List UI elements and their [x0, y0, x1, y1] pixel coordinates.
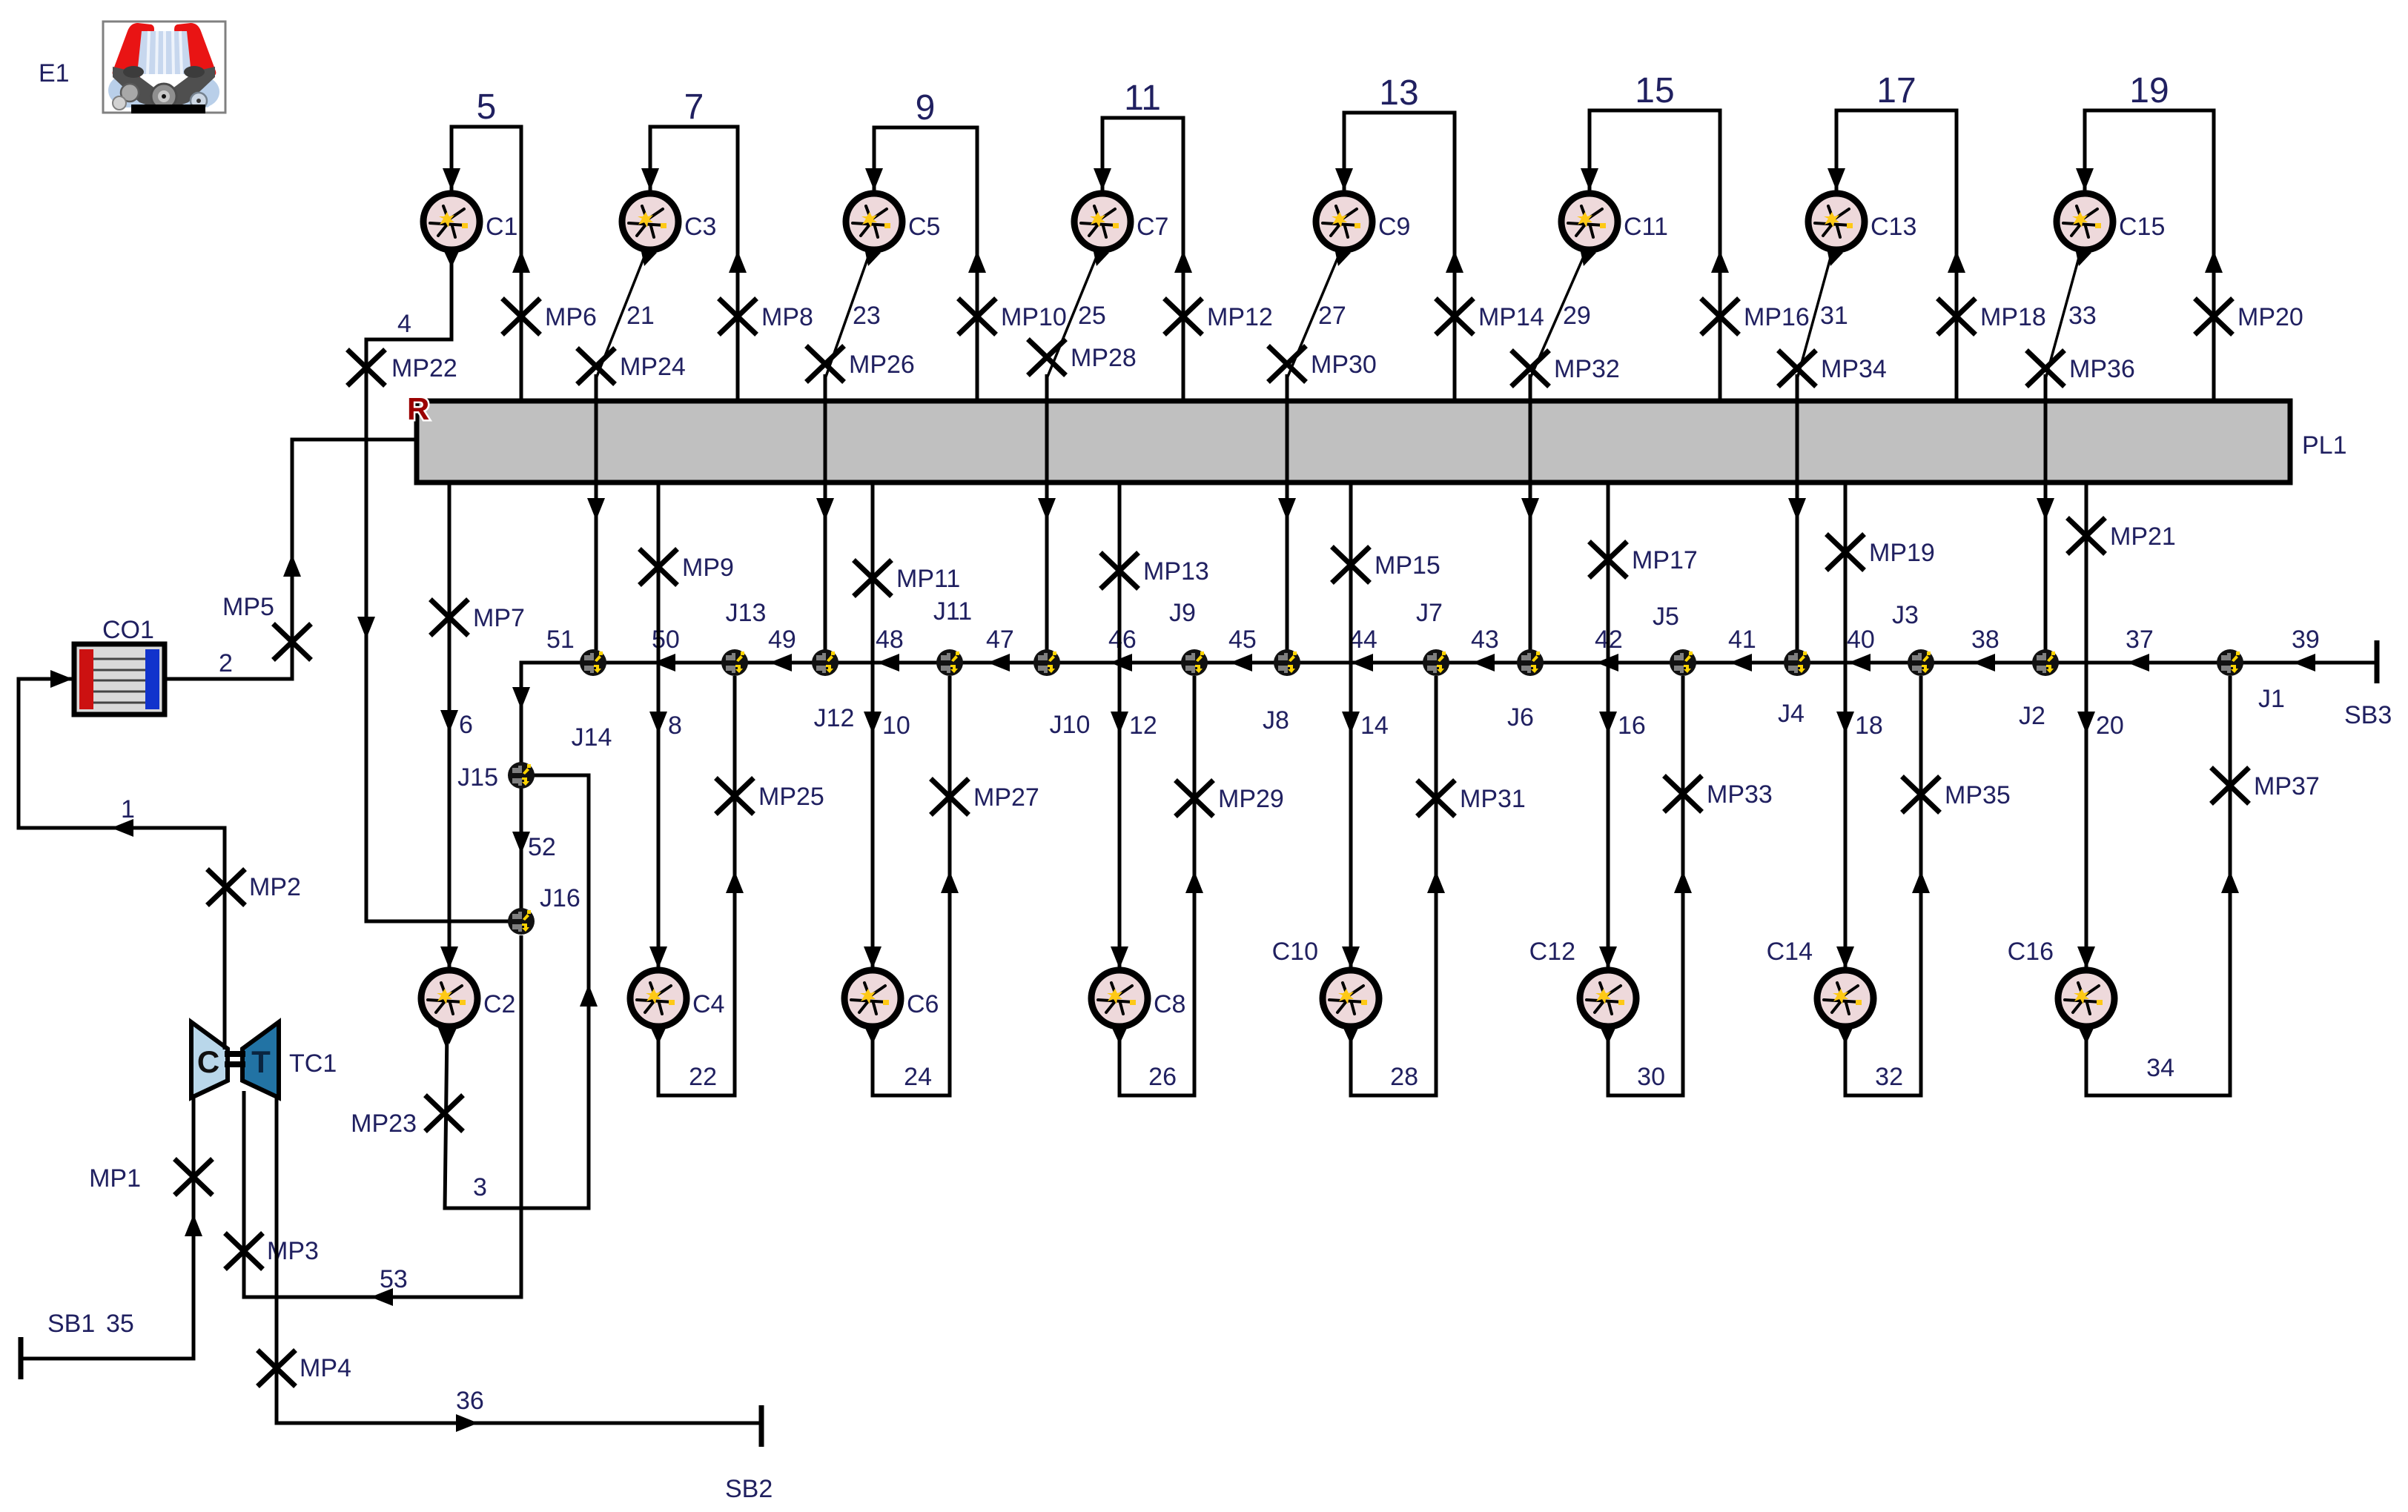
svg-text:J2: J2: [2019, 702, 2045, 730]
measuring point MP31: [1419, 782, 1453, 815]
wire 4 C1 exhaust to J16: [366, 253, 510, 921]
wire 52 J15 to J16: [520, 787, 523, 909]
svg-text:8: 8: [668, 712, 682, 740]
svg-text:MP2: MP2: [249, 873, 301, 901]
measuring point MP19: [1828, 536, 1862, 568]
svg-text:J10: J10: [1050, 711, 1091, 739]
svg-text:53: 53: [380, 1265, 408, 1293]
measuring point MP7: [432, 601, 466, 634]
svg-text:50: 50: [652, 626, 680, 654]
intake runner 17 loop: [1836, 110, 1956, 401]
wire 35 SB1 to compressor inlet: [22, 1098, 193, 1359]
svg-text:CO1: CO1: [102, 616, 154, 644]
cylinder C2: [421, 970, 477, 1044]
exhaust pipe 25 from C7 to junction: [1048, 255, 1097, 377]
measuring point MP16: [1703, 300, 1737, 333]
svg-text:MP27: MP27: [973, 783, 1039, 812]
intake runner 5 loop: [451, 127, 521, 401]
svg-text:C9: C9: [1378, 213, 1410, 241]
svg-text:J5: J5: [1653, 603, 1679, 631]
measuring point MP28: [1030, 341, 1064, 374]
cylinder C11: [1561, 193, 1618, 266]
measuring point MP3: [227, 1235, 261, 1267]
svg-text:MP17: MP17: [1632, 546, 1698, 574]
svg-text:10: 10: [882, 712, 910, 740]
svg-text:MP34: MP34: [1821, 355, 1887, 383]
svg-text:22: 22: [689, 1063, 717, 1091]
pipe label 45 with flow arrow: [1230, 654, 1252, 672]
pipe label 46 with flow arrow: [1110, 654, 1132, 672]
svg-text:MP1: MP1: [89, 1164, 141, 1193]
measuring point MP13: [1102, 554, 1137, 587]
svg-text:15: 15: [1635, 71, 1674, 110]
svg-text:C7: C7: [1137, 213, 1168, 241]
exhaust pipe 33 from C15 to junction: [2046, 255, 2080, 377]
svg-text:16: 16: [1618, 712, 1646, 740]
measuring point MP33: [1666, 777, 1700, 810]
svg-text:34: 34: [2146, 1054, 2174, 1082]
junction J1: [2217, 649, 2243, 676]
exhaust loop 26 from C8 to junction: [1119, 676, 1194, 1095]
svg-text:4: 4: [397, 310, 411, 338]
wire 3 C2 exhaust to J15: [445, 775, 589, 1208]
boundary SB2: [759, 1405, 764, 1447]
svg-text:40: 40: [1847, 626, 1875, 654]
svg-text:6: 6: [459, 711, 473, 739]
svg-text:1: 1: [121, 795, 135, 823]
measuring point MP1: [176, 1161, 211, 1193]
pipe label 38 with flow arrow: [1973, 654, 1995, 672]
svg-text:36: 36: [456, 1387, 484, 1415]
intake runner 20 to C16: [2085, 483, 2088, 969]
wire 1 compressor outlet to CO1: [19, 679, 225, 1050]
cylinder C13: [1808, 193, 1865, 266]
svg-text:38: 38: [1971, 626, 1999, 654]
svg-text:MP33: MP33: [1707, 780, 1773, 809]
exhaust pipe 31 from C13 to junction: [1798, 255, 1831, 377]
svg-text:MP12: MP12: [1207, 303, 1273, 331]
svg-text:MP23: MP23: [351, 1110, 417, 1138]
measuring point MP11: [856, 562, 890, 594]
intake plenum PL1: [417, 401, 2290, 483]
intake runner 12 to C8: [1118, 483, 1122, 969]
measuring point MP36: [2028, 352, 2063, 385]
svg-text:30: 30: [1637, 1063, 1665, 1091]
svg-text:C5: C5: [908, 213, 940, 241]
cylinder C8: [1091, 970, 1148, 1044]
cylinder C14: [1817, 970, 1873, 1044]
svg-text:C10: C10: [1272, 938, 1318, 966]
svg-text:J15: J15: [457, 763, 498, 792]
svg-text:3: 3: [473, 1173, 487, 1201]
pipe label 39 with flow arrow: [2293, 654, 2315, 672]
svg-text:45: 45: [1228, 626, 1257, 654]
svg-text:C1: C1: [486, 213, 517, 241]
svg-text:MP6: MP6: [545, 303, 597, 331]
intake runner 7 loop: [650, 127, 738, 401]
exhaust manifold collector wire: [521, 661, 2377, 665]
svg-text:2: 2: [219, 649, 233, 677]
intake runner 16 to C12: [1607, 483, 1610, 969]
turbocharger TC1: [191, 1022, 279, 1098]
svg-text:24: 24: [904, 1063, 932, 1091]
svg-text:51: 51: [546, 626, 575, 654]
svg-text:C4: C4: [692, 990, 724, 1018]
measuring point MP5: [275, 626, 309, 658]
svg-text:R: R: [407, 391, 429, 426]
svg-text:49: 49: [768, 626, 796, 654]
exhaust loop 34 from C16 to junction: [2086, 676, 2230, 1095]
junction J7: [1423, 649, 1449, 676]
svg-text:MP37: MP37: [2254, 772, 2320, 800]
svg-text:MP10: MP10: [1001, 303, 1067, 331]
svg-text:17: 17: [1876, 71, 1916, 110]
svg-text:MP22: MP22: [391, 354, 457, 382]
measuring point MP10: [960, 300, 994, 333]
svg-text:J3: J3: [1892, 601, 1919, 629]
measuring point MP25: [718, 780, 752, 812]
svg-text:J14: J14: [572, 723, 612, 752]
pipe label 37 with flow arrow: [2127, 654, 2149, 672]
svg-text:35: 35: [106, 1310, 134, 1338]
svg-text:T: T: [251, 1044, 271, 1079]
svg-text:MP20: MP20: [2237, 303, 2303, 331]
pipe label 48 with flow arrow: [877, 654, 899, 672]
junction J9: [1181, 649, 1208, 676]
junction J15: [508, 762, 535, 789]
measuring point MP32: [1513, 352, 1547, 385]
junction J13: [721, 649, 748, 676]
svg-text:MP4: MP4: [300, 1354, 351, 1382]
measuring point MP15: [1334, 548, 1368, 581]
svg-text:20: 20: [2096, 712, 2124, 740]
measuring point MP14: [1438, 300, 1472, 333]
measuring point MP37: [2213, 769, 2247, 802]
svg-text:J1: J1: [2258, 685, 2285, 713]
svg-text:E1: E1: [39, 59, 70, 87]
measuring point MP9: [641, 551, 675, 583]
svg-text:J6: J6: [1507, 703, 1534, 732]
svg-text:J7: J7: [1416, 599, 1443, 627]
pipe label 49 with flow arrow: [770, 654, 792, 672]
svg-text:J13: J13: [726, 599, 767, 627]
svg-text:23: 23: [853, 302, 881, 330]
exhaust pipe 29 from C11 to junction: [1531, 255, 1584, 377]
cylinder C15: [2057, 193, 2113, 266]
junction J8: [1274, 649, 1300, 676]
exhaust pipe 27 from C9 to junction: [1288, 255, 1339, 377]
svg-text:C6: C6: [907, 990, 939, 1018]
intake runner 13 loop: [1344, 113, 1455, 401]
cylinder C7: [1074, 193, 1131, 266]
exhaust loop 24 from C6 to junction: [873, 676, 950, 1095]
svg-text:MP15: MP15: [1375, 551, 1440, 580]
svg-text:MP32: MP32: [1554, 355, 1620, 383]
svg-text:MP16: MP16: [1744, 303, 1810, 331]
svg-text:MP9: MP9: [682, 554, 734, 582]
svg-text:28: 28: [1390, 1063, 1418, 1091]
measuring point MP18: [1939, 300, 1974, 333]
svg-text:C15: C15: [2119, 213, 2165, 241]
measuring point MP26: [808, 348, 842, 380]
pipe label 43 with flow arrow: [1472, 654, 1495, 672]
svg-text:43: 43: [1471, 626, 1499, 654]
svg-text:MP25: MP25: [758, 783, 824, 811]
junction J12: [812, 649, 838, 676]
svg-text:C3: C3: [684, 213, 716, 241]
cylinder C6: [844, 970, 901, 1044]
junction J5: [1670, 649, 1696, 676]
measuring point MP8: [721, 300, 755, 333]
svg-text:21: 21: [626, 302, 655, 330]
measuring point MP23: [427, 1097, 461, 1130]
svg-text:9: 9: [916, 88, 936, 127]
intake runner 9 loop: [874, 127, 977, 401]
svg-text:MP35: MP35: [1945, 781, 2011, 809]
measuring point MP4: [259, 1352, 294, 1385]
exhaust pipe 21 from C3 to junction: [597, 255, 645, 377]
intake runner 10 to C6: [871, 483, 875, 969]
svg-text:11: 11: [1124, 79, 1161, 118]
pipe label 42 with flow arrow: [1596, 654, 1618, 672]
intake runner 14 to C10: [1349, 483, 1353, 969]
svg-text:13: 13: [1379, 73, 1418, 113]
svg-text:32: 32: [1875, 1063, 1903, 1091]
cylinder C1: [423, 193, 480, 268]
svg-text:SB1: SB1: [47, 1310, 95, 1338]
cylinder C5: [846, 193, 902, 266]
measuring point MP27: [933, 780, 967, 813]
measuring point MP29: [1177, 782, 1211, 815]
measuring point MP12: [1166, 300, 1200, 333]
wire 36 turbine outlet to SB2: [277, 1097, 760, 1423]
junction J2: [2032, 649, 2059, 676]
svg-text:26: 26: [1148, 1063, 1177, 1091]
svg-text:19: 19: [2129, 71, 2169, 110]
svg-text:TC1: TC1: [289, 1050, 337, 1078]
svg-text:SB2: SB2: [725, 1475, 773, 1503]
boundary SB1: [19, 1337, 24, 1379]
measuring point MP22: [349, 351, 383, 384]
svg-text:12: 12: [1129, 712, 1157, 740]
svg-text:MP36: MP36: [2069, 355, 2135, 383]
svg-text:48: 48: [876, 626, 904, 654]
intake runner 18 to C14: [1844, 483, 1848, 969]
junction J14: [580, 649, 606, 676]
exhaust loop 22 from C4 to junction: [658, 676, 735, 1095]
junction J3: [1908, 649, 1934, 676]
svg-text:5: 5: [477, 87, 497, 127]
svg-text:J8: J8: [1263, 706, 1289, 735]
wire 51 manifold corner down to J15: [521, 663, 523, 763]
svg-text:C8: C8: [1154, 990, 1185, 1018]
junction J10: [1033, 649, 1060, 676]
cylinder C9: [1316, 193, 1372, 266]
intake runner 15 loop: [1590, 110, 1720, 401]
exhaust pipe 23 from C5 to junction: [826, 255, 869, 377]
svg-text:14: 14: [1360, 712, 1389, 740]
svg-text:MP30: MP30: [1311, 351, 1377, 379]
measuring point MP17: [1591, 543, 1625, 576]
measuring point MP2: [209, 871, 243, 903]
svg-text:18: 18: [1855, 712, 1883, 740]
wire 53 exhaust manifold to turbine inlet: [244, 935, 521, 1297]
measuring point MP21: [2069, 520, 2103, 552]
svg-text:J12: J12: [814, 704, 855, 732]
measuring point MP30: [1270, 348, 1304, 380]
svg-text:MP11: MP11: [896, 565, 960, 593]
svg-text:J16: J16: [540, 884, 580, 912]
svg-text:C14: C14: [1767, 938, 1813, 966]
junction J16: [508, 908, 535, 935]
pipe label 47 with flow arrow: [988, 654, 1010, 672]
svg-text:7: 7: [684, 87, 704, 127]
svg-text:SB3: SB3: [2344, 701, 2392, 729]
svg-text:MP28: MP28: [1071, 344, 1137, 372]
svg-text:J4: J4: [1778, 700, 1805, 728]
measuring point MP35: [1904, 778, 1938, 811]
svg-text:44: 44: [1349, 626, 1377, 654]
svg-text:MP31: MP31: [1460, 785, 1526, 813]
svg-text:PL1: PL1: [2302, 431, 2347, 460]
svg-text:52: 52: [528, 833, 556, 861]
svg-text:37: 37: [2126, 626, 2154, 654]
svg-text:33: 33: [2068, 302, 2097, 330]
cylinder C16: [2058, 970, 2114, 1044]
exhaust loop 30 from C12 to junction: [1608, 676, 1683, 1095]
svg-text:MP13: MP13: [1143, 557, 1209, 586]
pipe label 41 with flow arrow: [1730, 654, 1752, 672]
intake runner 19 loop: [2085, 110, 2214, 401]
junction J4: [1784, 649, 1810, 676]
intake runner 11 loop: [1102, 118, 1183, 401]
cylinder C12: [1580, 970, 1636, 1044]
svg-text:MP5: MP5: [222, 593, 274, 621]
svg-text:MP24: MP24: [620, 353, 686, 381]
measuring point MP24: [579, 350, 613, 382]
measuring point MP6: [504, 300, 538, 333]
svg-text:C12: C12: [1529, 938, 1575, 966]
svg-text:MP3: MP3: [267, 1237, 319, 1265]
intake runner 8 to C4: [657, 483, 661, 969]
cylinder C10: [1323, 970, 1379, 1044]
svg-text:J9: J9: [1169, 599, 1196, 627]
pipe label 50 with flow arrow: [653, 654, 675, 672]
svg-text:MP7: MP7: [473, 604, 525, 632]
svg-text:41: 41: [1728, 626, 1756, 654]
svg-text:C2: C2: [483, 990, 515, 1018]
svg-text:27: 27: [1318, 302, 1346, 330]
svg-text:C16: C16: [2008, 938, 2054, 966]
svg-text:31: 31: [1820, 302, 1848, 330]
charge air cooler CO1: [74, 644, 165, 714]
measuring point MP34: [1780, 352, 1814, 385]
svg-text:47: 47: [986, 626, 1014, 654]
intake runner 6 to C2: [448, 483, 451, 969]
svg-text:J11: J11: [933, 597, 972, 626]
svg-text:39: 39: [2292, 626, 2320, 654]
svg-text:MP29: MP29: [1218, 785, 1284, 813]
pipe label 44 with flow arrow: [1351, 654, 1373, 672]
svg-text:MP18: MP18: [1980, 303, 2046, 331]
cylinder C4: [630, 970, 687, 1044]
svg-text:MP8: MP8: [761, 303, 813, 331]
measuring point MP20: [2197, 300, 2231, 333]
svg-text:MP14: MP14: [1478, 303, 1544, 331]
svg-text:C13: C13: [1870, 213, 1916, 241]
cylinder C3: [622, 193, 678, 266]
boundary SB3: [2375, 640, 2380, 683]
wire 2 CO1 to plenum via MP5: [165, 440, 419, 679]
svg-text:MP26: MP26: [849, 351, 915, 379]
pipe label 40 with flow arrow: [1848, 654, 1870, 672]
svg-text:MP19: MP19: [1869, 539, 1935, 567]
svg-text:25: 25: [1078, 302, 1106, 330]
svg-text:46: 46: [1108, 626, 1137, 654]
junction J11: [936, 649, 963, 676]
exhaust loop 32 from C14 to junction: [1845, 676, 1921, 1095]
exhaust loop 28 from C10 to junction: [1351, 676, 1436, 1095]
svg-text:C: C: [197, 1044, 219, 1079]
junction J6: [1517, 649, 1544, 676]
svg-text:C11: C11: [1624, 213, 1668, 241]
svg-text:29: 29: [1563, 302, 1591, 330]
svg-text:MP21: MP21: [2110, 523, 2176, 551]
engine E1: [103, 21, 225, 113]
